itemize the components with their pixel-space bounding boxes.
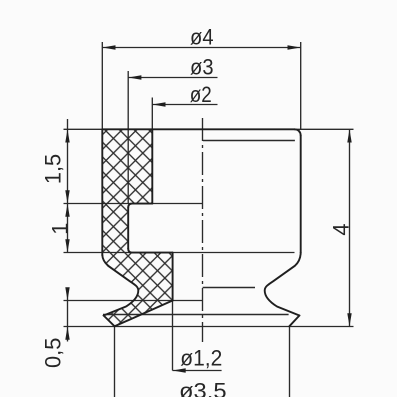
svg-text:ø4: ø4	[190, 25, 214, 50]
svg-text:ø3: ø3	[190, 55, 214, 80]
svg-text:ø3,5: ø3,5	[179, 379, 227, 397]
svg-text:ø1,2: ø1,2	[180, 346, 222, 371]
svg-text:0,5: 0,5	[41, 338, 66, 368]
svg-text:1: 1	[47, 223, 72, 235]
svg-text:1,5: 1,5	[40, 154, 65, 184]
svg-text:ø2: ø2	[190, 82, 212, 107]
svg-text:4: 4	[328, 224, 353, 236]
